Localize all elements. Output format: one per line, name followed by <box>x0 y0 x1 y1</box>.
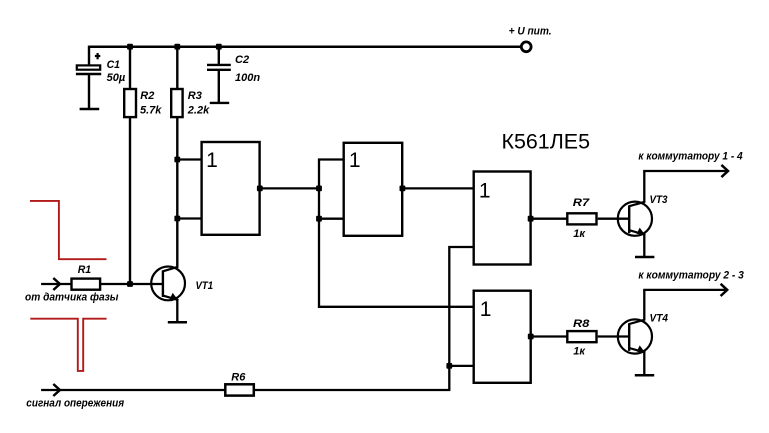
wire: C2 top lead <box>218 47 220 65</box>
waveform: phase step (red) <box>30 201 107 259</box>
node: R2 bottom junction <box>127 281 133 287</box>
wire: R1 to VT1 base <box>100 283 163 285</box>
wire: to gate2 input 1 <box>318 158 344 160</box>
arrow: phase input head <box>53 278 60 290</box>
wire: VT4 emitter down <box>643 353 645 375</box>
wire: +U supply rail <box>89 45 521 48</box>
ground: C1 bar <box>80 108 100 110</box>
wire: R3 top lead <box>176 47 178 90</box>
resistor R8 <box>567 331 596 342</box>
wire: inter-gate vertical bus <box>318 160 320 307</box>
svg-text:1: 1 <box>206 149 218 172</box>
svg-text:2.2k: 2.2k <box>187 104 210 116</box>
svg-text:100n: 100n <box>235 72 260 84</box>
wire: R3 bottom lead down to VT1 collector <box>176 118 178 268</box>
svg-text:VT4: VT4 <box>650 312 669 324</box>
gate U1.2 <box>344 143 403 236</box>
wire: gate1 input 1 <box>177 158 201 160</box>
wire: gate4 output to R8 <box>531 335 567 337</box>
wire: gate3 lower input corner from R6 bus <box>449 247 473 390</box>
wire: output arrow line 1 <box>643 170 728 172</box>
svg-text:к коммутатору 2 - 3: к коммутатору 2 - 3 <box>638 269 744 281</box>
ground: VT3 <box>635 256 654 259</box>
node: gate3 output <box>528 216 534 222</box>
gate U1.4 <box>474 291 531 383</box>
wire: gate2 output to gate3 <box>402 187 474 189</box>
svg-text:сигнал опережения: сигнал опережения <box>26 397 124 409</box>
node: R6 bus to gate4 lower input <box>446 363 452 369</box>
waveform: advance pulse (red) <box>30 319 106 371</box>
resistor R6 <box>225 384 254 395</box>
arrow: advance input head <box>53 384 60 396</box>
node: rail junction C2 <box>216 44 222 50</box>
wire: gate4 lower input <box>449 365 473 367</box>
wire: R6 to vertical riser <box>255 389 451 391</box>
resistor R7 <box>567 213 596 224</box>
node: gate1 output <box>257 186 263 192</box>
ground: VT4 <box>635 374 654 377</box>
resistor R1 <box>72 279 101 290</box>
node: vertical bus junction at gate1 output <box>316 186 322 192</box>
resistor R2 <box>124 89 136 117</box>
svg-text:R8: R8 <box>573 318 590 330</box>
capacitor C2 <box>207 65 231 102</box>
arrow: output 2 head <box>721 284 728 296</box>
node: gate2 output <box>400 186 406 192</box>
svg-text:от датчика фазы: от датчика фазы <box>25 292 119 304</box>
transistor VT1 <box>151 267 185 301</box>
ground: C2 bar <box>210 102 229 104</box>
svg-text:1: 1 <box>349 149 361 172</box>
svg-text:R1: R1 <box>78 264 91 276</box>
svg-text:1к: 1к <box>573 228 586 240</box>
node: vertical bus junction at gate2 input2 <box>316 216 322 222</box>
wire: VT4 collector up <box>643 290 645 320</box>
wire: phase input line <box>41 283 71 285</box>
ground: VT1 <box>168 321 187 324</box>
svg-text:К561ЛЕ5: К561ЛЕ5 <box>502 130 591 153</box>
svg-text:R7: R7 <box>573 197 590 209</box>
svg-text:C1: C1 <box>107 59 120 71</box>
svg-text:R2: R2 <box>140 90 154 102</box>
svg-text:VT3: VT3 <box>650 194 668 206</box>
gate U1.1 <box>202 142 260 235</box>
wire: gate4 top input from vertical bus <box>319 306 474 307</box>
wire: gate1 output to vertical bus <box>260 187 319 189</box>
svg-text:1: 1 <box>480 298 492 321</box>
node: gate1 input tap 1 <box>174 157 180 163</box>
terminal: +U pit. circle <box>521 42 531 52</box>
svg-text:1: 1 <box>479 180 491 203</box>
transistor VT3 <box>618 202 652 236</box>
gate U1.3 <box>474 172 531 265</box>
wire: advance signal line left <box>41 389 225 391</box>
node: rail junction R2 <box>127 44 133 50</box>
node: gate4 output <box>528 334 534 340</box>
svg-text:50µ: 50µ <box>107 72 126 84</box>
wire: R2 top lead <box>129 47 131 90</box>
wire: R8 to VT4 base <box>598 335 630 337</box>
svg-text:1к: 1к <box>573 346 586 358</box>
wire: VT3 collector up <box>643 171 645 202</box>
arrow: output 1 head <box>721 165 728 177</box>
wire: gate3 output to R7 <box>531 218 567 220</box>
svg-text:+ U пит.: + U пит. <box>509 26 552 38</box>
wire: gate1 input 2 <box>177 217 201 219</box>
svg-text:C2: C2 <box>235 54 249 66</box>
svg-text:5.7k: 5.7k <box>140 104 162 116</box>
wire: R7 to VT3 base <box>598 218 630 220</box>
svg-text:к коммутатору 1 - 4: к коммутатору 1 - 4 <box>638 151 742 163</box>
svg-text:R3: R3 <box>188 90 202 102</box>
wire: output arrow line 2 <box>643 289 727 291</box>
resistor R3 <box>171 89 182 117</box>
svg-text:VT1: VT1 <box>196 280 214 292</box>
node: rail junction R3 <box>174 44 180 50</box>
wire: R2 bottom lead down to base wire <box>129 118 131 285</box>
wire: VT1 emitter down <box>176 300 178 322</box>
svg-text:R6: R6 <box>231 372 246 384</box>
capacitor C1 <box>76 46 101 108</box>
transistor VT4 <box>618 319 652 353</box>
node: gate1 input tap 2 <box>174 216 180 222</box>
wire: VT3 emitter down <box>643 235 645 257</box>
wire: to gate2 input 2 <box>319 218 344 220</box>
